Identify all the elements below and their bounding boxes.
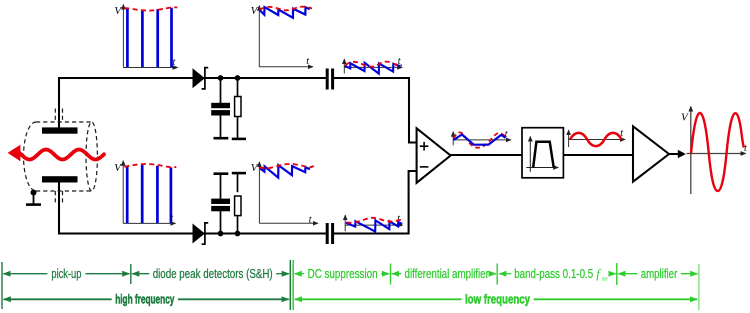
tick left end (dark) bbox=[1, 262, 3, 309]
wire bottom rail (cap to - input, with corner) bbox=[334, 171, 417, 234]
label high frequency bbox=[4, 291, 289, 306]
svg-text:rev: rev bbox=[602, 276, 608, 283]
tick right end (pale) bbox=[698, 264, 700, 310]
svg-text:low frequency: low frequency bbox=[465, 291, 531, 306]
node dot top res bbox=[235, 75, 241, 81]
label band-pass 0.1-0.5 f_rev bbox=[499, 266, 615, 283]
band-pass filter U2 (box) bbox=[522, 128, 563, 178]
plot: bottom sawtooth V(t) after peak detector bbox=[251, 162, 318, 226]
op-amp U1 (differential amplifier) bbox=[417, 128, 451, 183]
capacitor C6 (series, bottom, DC suppression) bbox=[326, 223, 329, 244]
svg-text:t: t bbox=[744, 143, 747, 154]
ground (pickup housing) bbox=[26, 190, 41, 205]
pickup plate top bbox=[42, 127, 78, 133]
svg-text:high frequency: high frequency bbox=[115, 291, 175, 306]
amplifier U3 bbox=[633, 126, 669, 181]
svg-text:pick-up: pick-up bbox=[51, 266, 81, 281]
svg-text:diode peak detectors (S&H): diode peak detectors (S&H) bbox=[153, 266, 273, 281]
capacitor C2 (shunt, bottom) bbox=[211, 199, 230, 204]
wire top rail (cap to + input, with corner) bbox=[334, 78, 417, 143]
diode D2 (bottom) bbox=[193, 223, 209, 244]
svg-text:t: t bbox=[170, 213, 173, 224]
label low frequency bbox=[295, 291, 697, 306]
svg-text:DC suppression: DC suppression bbox=[308, 266, 378, 281]
label DC suppression bbox=[295, 266, 390, 281]
wire cap C2 branch bbox=[220, 208, 222, 233]
node dot bottom cap bbox=[218, 231, 224, 237]
plot: bottom AC sawtooth after DC suppression bbox=[345, 214, 403, 232]
band-pass response curve inside U2 bbox=[526, 137, 558, 172]
label differential amplifier bbox=[392, 266, 496, 281]
diode D1 (top) bbox=[193, 68, 209, 89]
resistor R2 (bottom) bbox=[235, 196, 241, 216]
wire top rail (pickup to DC-block cap) bbox=[59, 78, 326, 128]
tick band-pass/amplifier boundary bbox=[616, 263, 618, 285]
beam arrow (red wave) bbox=[8, 145, 104, 161]
svg-text:amplifier: amplifier bbox=[641, 266, 678, 281]
label diode peak detectors (S&H) bbox=[132, 266, 289, 281]
tick high/low boundary (dark) bbox=[289, 260, 291, 310]
wire res R1 branch bbox=[237, 78, 239, 98]
wire cap C1 branch bbox=[220, 78, 222, 103]
tick differential/band-pass boundary bbox=[496, 264, 498, 285]
svg-text:band-pass 0.1-0.5: band-pass 0.1-0.5 bbox=[514, 266, 593, 281]
label pick-up bbox=[3, 266, 129, 281]
wire bottom rail (pickup to DC-block cap) bbox=[59, 182, 326, 234]
pickup cylinder (dashed body) bbox=[23, 109, 97, 205]
ground R1 bbox=[232, 138, 246, 141]
wire U2 output bbox=[563, 154, 633, 156]
svg-text:t: t bbox=[306, 56, 309, 67]
label amplifier bbox=[618, 266, 697, 281]
node dot top cap bbox=[218, 75, 224, 81]
tick pick-up / diode boundary bbox=[130, 264, 132, 284]
output arrow bbox=[669, 150, 686, 159]
plot: bottom pulse train V(t) bbox=[114, 161, 176, 224]
svg-text:t: t bbox=[309, 214, 312, 225]
plot: top sawtooth V(t) after peak detector bbox=[251, 5, 313, 67]
plot: difference signal after U1 bbox=[453, 129, 511, 148]
capacitor C5 (series, top, DC suppression) bbox=[326, 69, 329, 90]
wire res R2 branch bbox=[237, 211, 239, 233]
plot: sine after band-pass bbox=[569, 128, 625, 147]
svg-text:differential amplifier: differential amplifier bbox=[405, 266, 490, 281]
node dot bottom res bbox=[235, 231, 241, 237]
resistor R1 (top) bbox=[235, 97, 241, 117]
wire U1 output bbox=[451, 154, 523, 156]
ground R2 (pointing up) bbox=[232, 172, 246, 175]
svg-text:t: t bbox=[173, 57, 176, 68]
plot: top pulse train V(t) bbox=[114, 5, 177, 68]
plot: top AC sawtooth after DC suppression bbox=[344, 56, 402, 73]
tick high/low boundary (bright) bbox=[292, 260, 294, 310]
capacitor C1 (shunt, top) bbox=[211, 103, 230, 108]
tick DC/differential boundary bbox=[390, 264, 392, 285]
pickup plate bottom bbox=[42, 176, 78, 182]
ground C2 (pointing up) bbox=[214, 172, 229, 175]
plot: output sine V(t) bbox=[681, 107, 747, 195]
ground C1 bbox=[214, 137, 229, 140]
